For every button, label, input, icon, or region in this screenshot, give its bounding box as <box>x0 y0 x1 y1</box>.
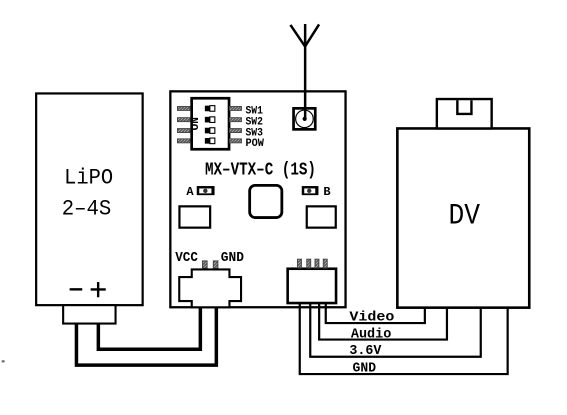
DIP switch toggle 3 <box>205 128 215 134</box>
AV connector J3 <box>288 269 336 303</box>
power connector pin GND <box>213 261 218 269</box>
DIP switch toggle 2 <box>205 117 215 123</box>
wire battery plus to VCC pin <box>98 304 200 349</box>
component left square <box>179 206 210 227</box>
svg-text:B: B <box>323 185 330 199</box>
antenna <box>290 24 319 119</box>
LED B <box>302 186 319 195</box>
wire Video <box>326 300 425 323</box>
DIP switch pin left 2 <box>177 118 190 122</box>
svg-text:Audio: Audio <box>351 327 392 342</box>
AV connector pin 3 <box>315 259 319 268</box>
DV camera box <box>397 128 529 307</box>
antenna connector J1 <box>294 108 316 129</box>
DIP switch pin right 1 <box>229 106 241 110</box>
wire 3.6V <box>310 300 481 356</box>
wire GND <box>300 300 508 374</box>
DIP switch pin left 4 <box>177 139 190 143</box>
DIP switch toggle 4 <box>205 138 215 144</box>
svg-text:2–4S: 2–4S <box>62 197 111 222</box>
svg-text:POW: POW <box>245 138 264 150</box>
dust speck <box>2 360 5 362</box>
svg-text:A: A <box>186 185 194 199</box>
wire battery minus to GND pin <box>76 304 216 365</box>
battery minus terminal <box>70 288 83 290</box>
VTX board outline <box>170 91 345 307</box>
power connector J2 <box>179 269 241 307</box>
svg-text:VCC: VCC <box>175 251 198 266</box>
AV connector pin 2 <box>307 259 311 268</box>
svg-text:GND: GND <box>221 251 244 266</box>
svg-text:ON: ON <box>190 117 202 130</box>
AV connector pin 4 <box>323 259 327 268</box>
DIP switch pin right 2 <box>229 118 241 122</box>
DIP switch pin right 4 <box>229 139 241 143</box>
svg-text:Video: Video <box>349 311 394 326</box>
component right square <box>307 206 336 227</box>
svg-text:GND: GND <box>353 362 377 377</box>
DV top connector <box>437 99 492 128</box>
DIP switch pin right 3 <box>229 129 241 133</box>
svg-text:LiPO: LiPO <box>64 165 113 190</box>
LED A <box>197 186 215 195</box>
AV connector pin 1 <box>297 259 301 268</box>
power connector pin VCC <box>202 261 207 269</box>
svg-text:3.6V: 3.6V <box>349 344 382 359</box>
wire Audio <box>319 300 447 339</box>
DIP switch pin left 1 <box>177 106 190 110</box>
battery LiPO box BT1 <box>36 93 142 305</box>
svg-text:SW1: SW1 <box>245 105 263 117</box>
DIP switch S1 body <box>192 98 229 149</box>
IC U1 rounded square <box>250 185 282 217</box>
battery tab <box>63 305 115 323</box>
DIP switch pin left 3 <box>177 129 190 133</box>
DIP switch toggle 1 <box>205 106 215 112</box>
battery plus terminal <box>91 282 106 297</box>
svg-text:MX–VTX–C (1S): MX–VTX–C (1S) <box>205 160 316 180</box>
svg-text:DV: DV <box>448 199 480 233</box>
